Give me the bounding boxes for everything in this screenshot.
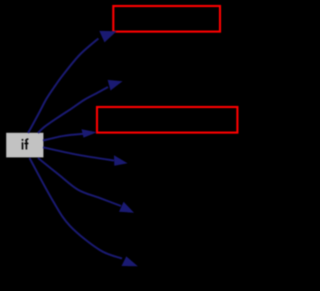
edge 6 (if -> hidden node 6) wire (30, 158, 123, 259)
node box 1 (red bordered, top right) (113, 6, 220, 32)
edge 2 (if -> hidden node 2) wire (38, 87, 108, 133)
node box 2 (red bordered, middle right) (97, 107, 237, 133)
f hook (26, 139, 29, 141)
label "if" drawn as shapes: i dot (22, 139, 24, 141)
arrowhead 2 (108, 80, 123, 91)
f crossbar (24, 143, 28, 145)
arrowhead 3 (82, 129, 97, 137)
arrowhead 5 (119, 202, 134, 213)
edge 3 (if -> box2) wire (43, 134, 84, 141)
node if (grey box) (6, 133, 43, 158)
i stem (22, 142, 24, 149)
edge 4 (if -> hidden node 4) wire (43, 147, 114, 160)
f stem (26, 141, 28, 150)
edge 5 (if -> hidden node 5) wire (38, 158, 121, 206)
arrowhead 4 (114, 155, 128, 166)
arrowhead 6 (122, 256, 138, 266)
edge 1 (if -> box1) wire (28, 39, 98, 134)
arrowhead 1 (99, 31, 116, 43)
